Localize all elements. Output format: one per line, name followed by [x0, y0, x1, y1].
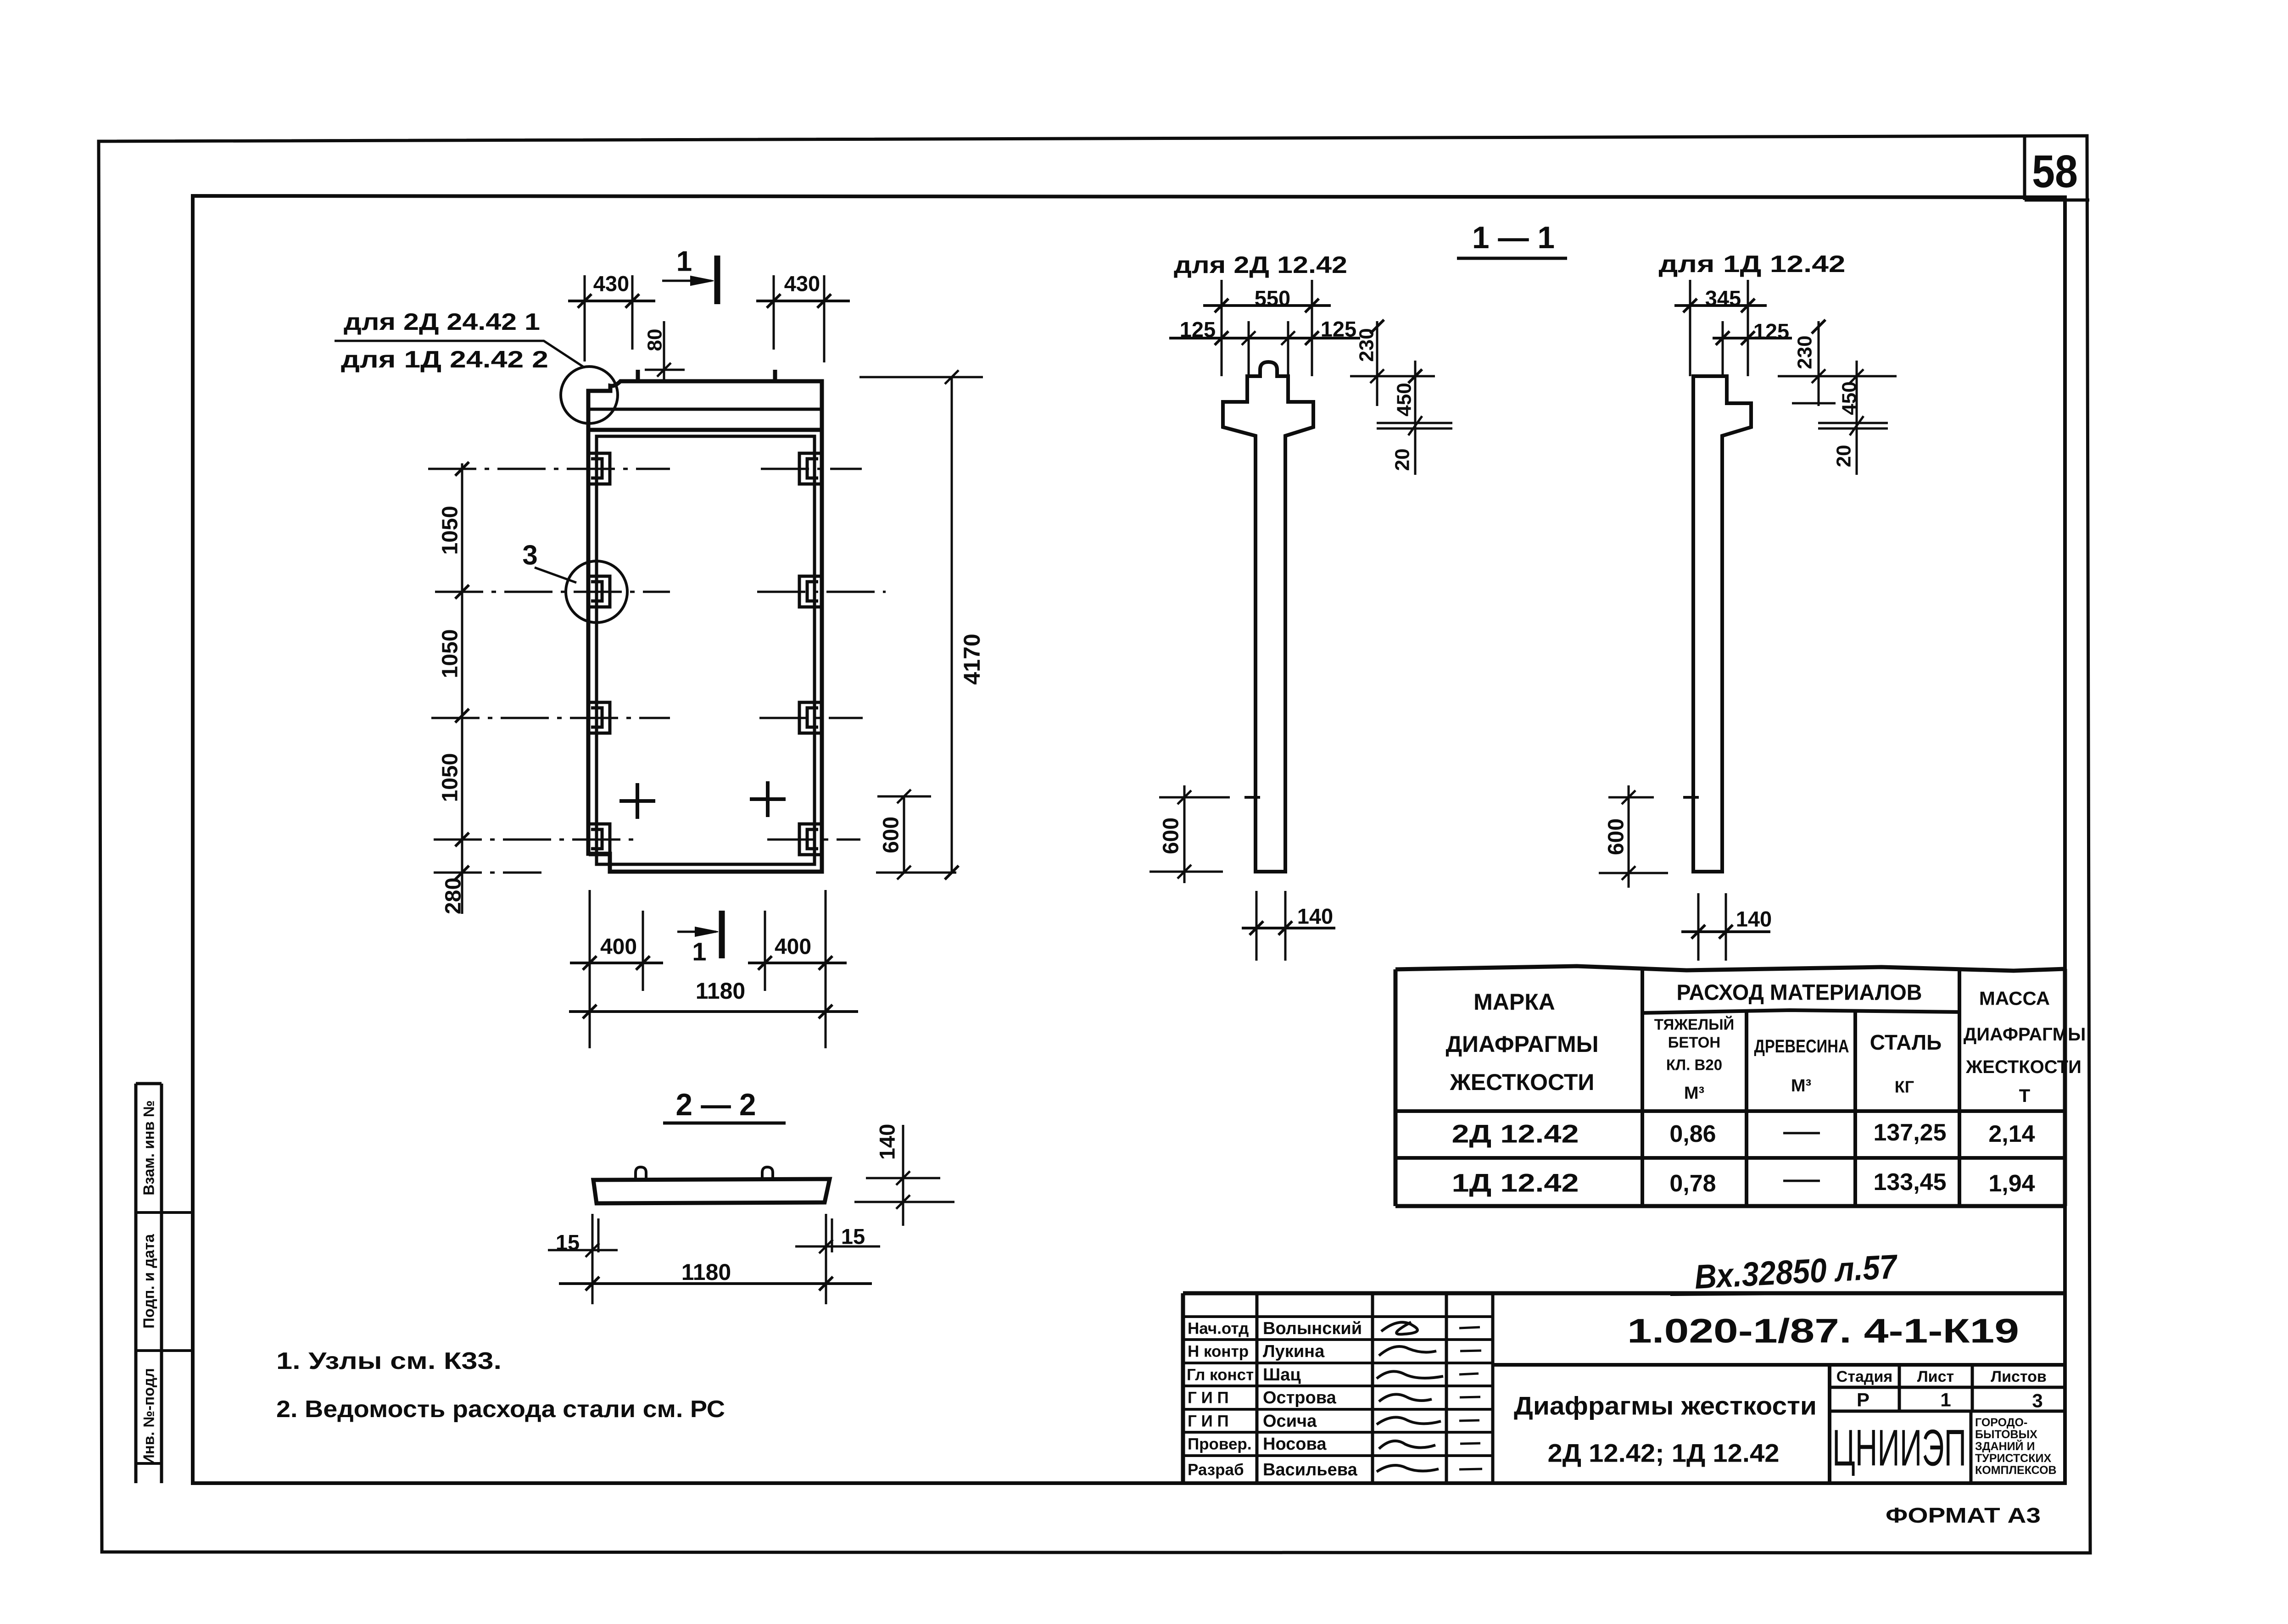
svg-text:125: 125 [1753, 319, 1789, 344]
svg-text:ФОРМАТ А3: ФОРМАТ А3 [1886, 1503, 2041, 1527]
svg-text:1: 1 [1940, 1389, 1951, 1411]
bottom edge dash line left [434, 872, 541, 874]
anchor L2 [589, 576, 610, 607]
1D dim 600 vertical line [1628, 785, 1630, 888]
svg-text:БЕТОН: БЕТОН [1668, 1034, 1721, 1051]
svg-text:1050: 1050 [438, 629, 463, 679]
anchor row 4 axis line left [434, 839, 640, 841]
svg-text:М³: М³ [1684, 1084, 1704, 1103]
svg-text:80: 80 [644, 329, 666, 351]
svg-text:Гл конст: Гл конст [1187, 1366, 1254, 1384]
table header split line [1642, 1010, 1959, 1013]
bottom dim 400 right dimension line [748, 956, 847, 970]
dim 600 bottom tick line shared [876, 866, 956, 879]
signature squiggle row3 [1379, 1346, 1436, 1356]
svg-text:Стадия: Стадия [1836, 1368, 1892, 1385]
svg-text:ТУРИСТСКИХ: ТУРИСТСКИХ [1975, 1452, 2051, 1465]
panel top beam line 2 [588, 428, 822, 432]
dim 4170 bottom tick [945, 866, 959, 879]
svg-text:—: — [1783, 1166, 1820, 1193]
svg-text:Диафрагмы жесткости: Диафрагмы жесткости [1514, 1391, 1817, 1420]
svg-text:3: 3 [522, 540, 537, 571]
2D dim 450 top tick [1408, 369, 1422, 383]
2-2 dim 15 left lines [548, 1214, 618, 1304]
left dim chain tick y1560 [455, 709, 469, 723]
signature squiggle row8 [1377, 1465, 1439, 1472]
svg-text:600: 600 [1159, 818, 1183, 854]
section 1-1 column 2D12.42 profile [1223, 362, 1313, 872]
svg-text:Т: Т [2019, 1086, 2030, 1106]
svg-text:РАСХОД МАТЕРИАЛОВ: РАСХОД МАТЕРИАЛОВ [1677, 981, 1922, 1005]
left dim chain tick y1902 [455, 866, 469, 879]
2D dim 450 vertical line [1414, 361, 1417, 475]
top edge stub tick left [636, 370, 640, 381]
dim 600 right vertical line [903, 796, 905, 873]
svg-text:ЦНИИЭП: ЦНИИЭП [1832, 1419, 1966, 1477]
dim 600 right top tick line [877, 790, 931, 803]
svg-text:БЫТОВЫХ: БЫТОВЫХ [1975, 1428, 2037, 1441]
panel top beam line 1 [588, 408, 822, 411]
2D stem tick at 600 level [1244, 796, 1260, 799]
svg-text:1.020-1/87. 4-1-К19: 1.020-1/87. 4-1-К19 [1627, 1312, 2019, 1350]
svg-text:58: 58 [2032, 146, 2078, 197]
svg-text:для 2Д 12.42: для 2Д 12.42 [1174, 252, 1347, 278]
anchor R1 [799, 453, 820, 484]
svg-text:Острова: Острова [1263, 1388, 1337, 1407]
svg-text:140: 140 [1736, 907, 1772, 931]
svg-text:137,25: 137,25 [1873, 1119, 1946, 1146]
svg-text:1 — 1: 1 — 1 [1472, 220, 1555, 255]
section cut mark 1 (top) thick line [714, 256, 720, 304]
inner border frame [193, 196, 2065, 1483]
anchor row 1 axis line right [761, 468, 862, 470]
svg-text:ТЯЖЕЛЫЙ: ТЯЖЕЛЫЙ [1654, 1016, 1734, 1033]
svg-text:Осича: Осича [1263, 1412, 1317, 1431]
2D dim 550 extension lines [1222, 280, 1312, 376]
panel inner recess rectangle [597, 436, 815, 864]
svg-text:20: 20 [1391, 449, 1414, 471]
svg-text:Р: Р [1857, 1389, 1869, 1411]
staff table date dashes [1459, 1327, 1482, 1469]
svg-text:3: 3 [2032, 1390, 2042, 1412]
svg-text:Подп. и дата: Подп. и дата [140, 1234, 157, 1329]
svg-text:Лукина: Лукина [1263, 1342, 1325, 1361]
table column line x4270 [1958, 968, 1961, 1206]
title block outer box [1183, 1293, 2065, 1483]
signature squiggle row6 [1377, 1417, 1441, 1424]
svg-text:2 — 2: 2 — 2 [676, 1087, 756, 1122]
svg-text:400: 400 [600, 935, 637, 959]
svg-text:140: 140 [1297, 904, 1333, 929]
outer border frame [99, 136, 2090, 1553]
svg-text:для 2Д 24.42 1: для 2Д 24.42 1 [344, 309, 540, 335]
dim 1180 dimension line [569, 1005, 858, 1018]
dim 430 left dimension line [568, 294, 655, 308]
svg-text:230: 230 [1794, 335, 1816, 369]
svg-text:430: 430 [593, 272, 629, 296]
table column line x4043 [1853, 1012, 1857, 1206]
signature squiggle row7 [1379, 1441, 1435, 1449]
svg-text:Разраб: Разраб [1188, 1461, 1244, 1479]
svg-text:1050: 1050 [438, 506, 463, 555]
section cut mark 1 (top) arrow [662, 280, 711, 282]
2D dim 550 dimension line [1203, 299, 1331, 312]
table header bottom line [1395, 1109, 2065, 1113]
2-2 dim 1180 dimension line [559, 1277, 872, 1290]
left stamp strip divider 2 [136, 1349, 193, 1352]
svg-text:ЗДАНИЙ И: ЗДАНИЙ И [1975, 1439, 2035, 1453]
1D dim 230 vertical line [1818, 321, 1820, 406]
svg-text:280: 280 [441, 878, 466, 914]
svg-text:15: 15 [841, 1224, 865, 1249]
anchor row 3 axis line right [759, 717, 863, 719]
svg-text:1050: 1050 [438, 753, 463, 802]
handwritten registry underline [1670, 1293, 1923, 1295]
2D dim 230 tick line y820 [1350, 369, 1435, 383]
svg-text:450: 450 [1838, 381, 1861, 415]
svg-text:для 1Д 24.42 2: для 1Д 24.42 2 [341, 346, 548, 373]
1D dim 600 top tick line [1608, 790, 1654, 804]
svg-text:230: 230 [1356, 328, 1378, 362]
leader line label 3 [535, 567, 576, 583]
svg-text:1: 1 [692, 937, 706, 966]
anchor R3 [799, 702, 820, 733]
1D dim 345 extension lines [1690, 280, 1748, 376]
dim 430 left extension lines [585, 275, 632, 362]
anchor R2 [799, 576, 820, 607]
leader line label 24.42 [335, 341, 584, 367]
svg-text:125: 125 [1321, 317, 1356, 341]
bottom dim 400 left dimension line [570, 956, 663, 970]
1D dim 600 bottom tick line [1599, 866, 1668, 880]
left dim chain vertical line [461, 463, 463, 914]
1D dim 230 tick line y820 [1778, 369, 1897, 383]
2-2 dim 140 bottom tick line [854, 1195, 954, 1209]
left stamp strip top line [136, 1082, 162, 1085]
table row line [1395, 1156, 2065, 1160]
section 2-2 slab outline [593, 1179, 830, 1203]
svg-text:Нач.отд: Нач.отд [1188, 1320, 1249, 1338]
title block title/stamp divider [1828, 1365, 1831, 1483]
svg-text:133,45: 133,45 [1873, 1169, 1946, 1196]
svg-text:2Д 12.42; 1Д 12.42: 2Д 12.42; 1Д 12.42 [1548, 1439, 1780, 1468]
panel elevation outline (diaphragm front view) [588, 381, 822, 872]
detail circle top-left corner [561, 367, 618, 423]
svg-text:1Д 12.42: 1Д 12.42 [1452, 1168, 1579, 1197]
dim 80 lines [645, 321, 685, 381]
svg-text:КОМПЛЕКСОВ: КОМПЛЕКСОВ [1975, 1464, 2057, 1477]
section cut mark 1 (bottom) thick line [719, 911, 725, 958]
svg-text:0,78: 0,78 [1669, 1170, 1716, 1197]
svg-text:2,14: 2,14 [1988, 1121, 2035, 1147]
svg-text:ЖЕСТКОСТИ: ЖЕСТКОСТИ [1965, 1057, 2082, 1077]
left dim chain tick y1022 [455, 462, 469, 476]
title block doc number cell bottom line [1493, 1363, 2065, 1367]
1D dim 125 extension line [1722, 321, 1724, 376]
svg-text:Г И П: Г И П [1188, 1389, 1229, 1407]
svg-text:2Д 12.42: 2Д 12.42 [1452, 1119, 1579, 1148]
svg-text:15: 15 [556, 1230, 580, 1255]
title block staff row lines [1183, 1317, 1493, 1456]
svg-text:СТАЛЬ: СТАЛЬ [1870, 1030, 1942, 1054]
svg-text:Н контр: Н контр [1188, 1343, 1249, 1361]
detail circle 3 on anchor L2 [566, 561, 627, 623]
svg-text:1. Узлы см. К33.: 1. Узлы см. К33. [276, 1348, 502, 1374]
1D dim 230 tick y712 [1812, 320, 1825, 334]
title block staff column lines [1257, 1293, 1493, 1483]
svg-text:1: 1 [676, 246, 692, 278]
left dim chain tick y1290 [455, 585, 469, 599]
materials table outer box [1395, 966, 2065, 1206]
svg-text:М³: М³ [1791, 1076, 1811, 1096]
svg-text:ЖЕСТКОСТИ: ЖЕСТКОСТИ [1450, 1069, 1595, 1095]
svg-text:1180: 1180 [696, 978, 745, 1004]
svg-text:600: 600 [1604, 818, 1629, 855]
anchor L1 [589, 453, 610, 484]
2-2 dim 140 top tick line [866, 1171, 940, 1185]
stadia list listov verticals [1899, 1365, 1972, 1411]
anchor row 3 axis line left [431, 717, 670, 719]
anchor row 1 axis line left [428, 468, 670, 470]
2D dim 125 dimension line [1169, 331, 1360, 345]
1D dim 125 dimension line [1713, 331, 1792, 345]
svg-text:ДРЕВЕСИНА: ДРЕВЕСИНА [1754, 1036, 1849, 1057]
svg-text:550: 550 [1255, 286, 1290, 311]
2-2 dim 140 vertical line [902, 1125, 904, 1226]
anchor row 2 axis line right [757, 591, 886, 593]
svg-text:345: 345 [1705, 286, 1741, 311]
dim 4170 vertical line [951, 377, 953, 873]
svg-text:Провер.: Провер. [1188, 1435, 1252, 1453]
plus mark left [619, 783, 655, 819]
svg-text:400: 400 [775, 935, 811, 959]
1D dim 450 vertical line [1856, 361, 1858, 475]
svg-text:450: 450 [1393, 383, 1416, 416]
1D dim 140 extension lines [1698, 893, 1726, 961]
svg-text:МАРКА: МАРКА [1473, 989, 1555, 1015]
stadia list listov row lines [1830, 1387, 2065, 1411]
svg-text:—: — [1783, 1118, 1820, 1145]
svg-text:2. Ведомость расхода стали см.: 2. Ведомость расхода стали см. РС [276, 1396, 725, 1423]
2D dim 140 dimension line [1242, 921, 1335, 935]
anchor row 2 axis line left [435, 591, 670, 593]
section 2-2 hook left [636, 1167, 646, 1180]
dim 4170 top tick line [859, 370, 983, 384]
svg-text:4170: 4170 [959, 634, 985, 684]
plus mark right [750, 781, 786, 817]
svg-text:430: 430 [784, 272, 820, 296]
svg-text:140: 140 [875, 1124, 899, 1160]
1D dim 20 double tick lines [1818, 416, 1888, 435]
section 2-2 hook right [762, 1167, 773, 1180]
2D dim 600 bottom tick line [1150, 865, 1223, 879]
svg-text:Носова: Носова [1263, 1435, 1327, 1454]
1D stem tick at 600 level [1683, 796, 1699, 799]
section cut mark 1 (bottom) arrow [677, 931, 716, 933]
dim 430 right dimension line [756, 294, 850, 308]
svg-text:ДИАФРАГМЫ: ДИАФРАГМЫ [1445, 1031, 1598, 1057]
svg-text:Волынский: Волынский [1263, 1319, 1362, 1338]
2D dim 600 vertical line [1183, 785, 1186, 883]
sheet number box 58 [2025, 137, 2089, 200]
anchor R4 [799, 824, 820, 855]
1D dim 450 top tick line [1792, 369, 1864, 403]
svg-text:Инв. №-подл: Инв. №-подл [140, 1368, 157, 1465]
2D dim 230 vertical line [1376, 321, 1378, 406]
left dim chain tick y1830 [455, 833, 469, 846]
svg-text:1,94: 1,94 [1988, 1170, 2035, 1197]
svg-text:Шац: Шац [1263, 1365, 1301, 1385]
left stamp strip verticals [136, 1084, 162, 1483]
2-2 dim 15 right lines [795, 1214, 880, 1304]
svg-text:КГ: КГ [1895, 1078, 1914, 1096]
dim 430 right extension lines [774, 275, 824, 362]
svg-text:Листов: Листов [1991, 1368, 2047, 1385]
svg-text:0,86: 0,86 [1669, 1121, 1716, 1147]
svg-text:Г И П: Г И П [1188, 1413, 1229, 1430]
signature squiggle row2 [1381, 1322, 1417, 1334]
anchor row 4 axis line right [767, 839, 860, 841]
bottom dim 400 left extension lines [590, 890, 643, 991]
svg-text:Васильева: Васильева [1263, 1460, 1358, 1479]
section 1-1 column 1D12.42 profile [1693, 376, 1751, 872]
anchor L3 [589, 702, 610, 733]
table column line x3579 [1641, 968, 1644, 1206]
2D dim 230 tick y712 [1370, 320, 1384, 334]
svg-text:20: 20 [1833, 445, 1855, 467]
svg-text:ГОРОДО-: ГОРОДО- [1975, 1416, 2027, 1429]
header 1-1 underline [1457, 257, 1567, 260]
header 2-2 underline [663, 1122, 786, 1125]
signature squiggle row5 [1379, 1394, 1432, 1402]
svg-text:Взам. инв №: Взам. инв № [140, 1100, 157, 1195]
table column line x3806 [1745, 1012, 1748, 1206]
top edge stub tick right [773, 370, 777, 381]
svg-text:для 1Д 12.42: для 1Д 12.42 [1659, 251, 1846, 278]
svg-text:КЛ. В20: КЛ. В20 [1666, 1057, 1722, 1073]
svg-text:125: 125 [1180, 317, 1216, 342]
anchor L4 [589, 824, 610, 855]
bottom dim 400 right extension lines [765, 890, 826, 1030]
1D dim 345 dimension line [1674, 299, 1767, 312]
2D dim 125 extension lines [1242, 321, 1295, 376]
svg-text:1180: 1180 [681, 1259, 731, 1285]
2D dim 20 double tick lines [1377, 416, 1452, 435]
2D dim 140 extension lines [1256, 891, 1285, 961]
2D dim 600 top tick line [1159, 790, 1230, 804]
svg-text:МАССА: МАССА [1979, 988, 2050, 1009]
left stamp strip divider 1 [136, 1211, 193, 1214]
svg-text:600: 600 [879, 817, 904, 853]
logo cell divider [1970, 1411, 1973, 1483]
svg-text:Лист: Лист [1917, 1368, 1954, 1385]
dim 1180 extension lines [590, 991, 826, 1048]
signature squiggle row4 [1377, 1371, 1443, 1379]
svg-text:ДИАФРАГМЫ: ДИАФРАГМЫ [1964, 1024, 2086, 1045]
left stamp strip bottom small divider [136, 1462, 162, 1465]
1D dim 140 dimension line [1681, 925, 1770, 939]
